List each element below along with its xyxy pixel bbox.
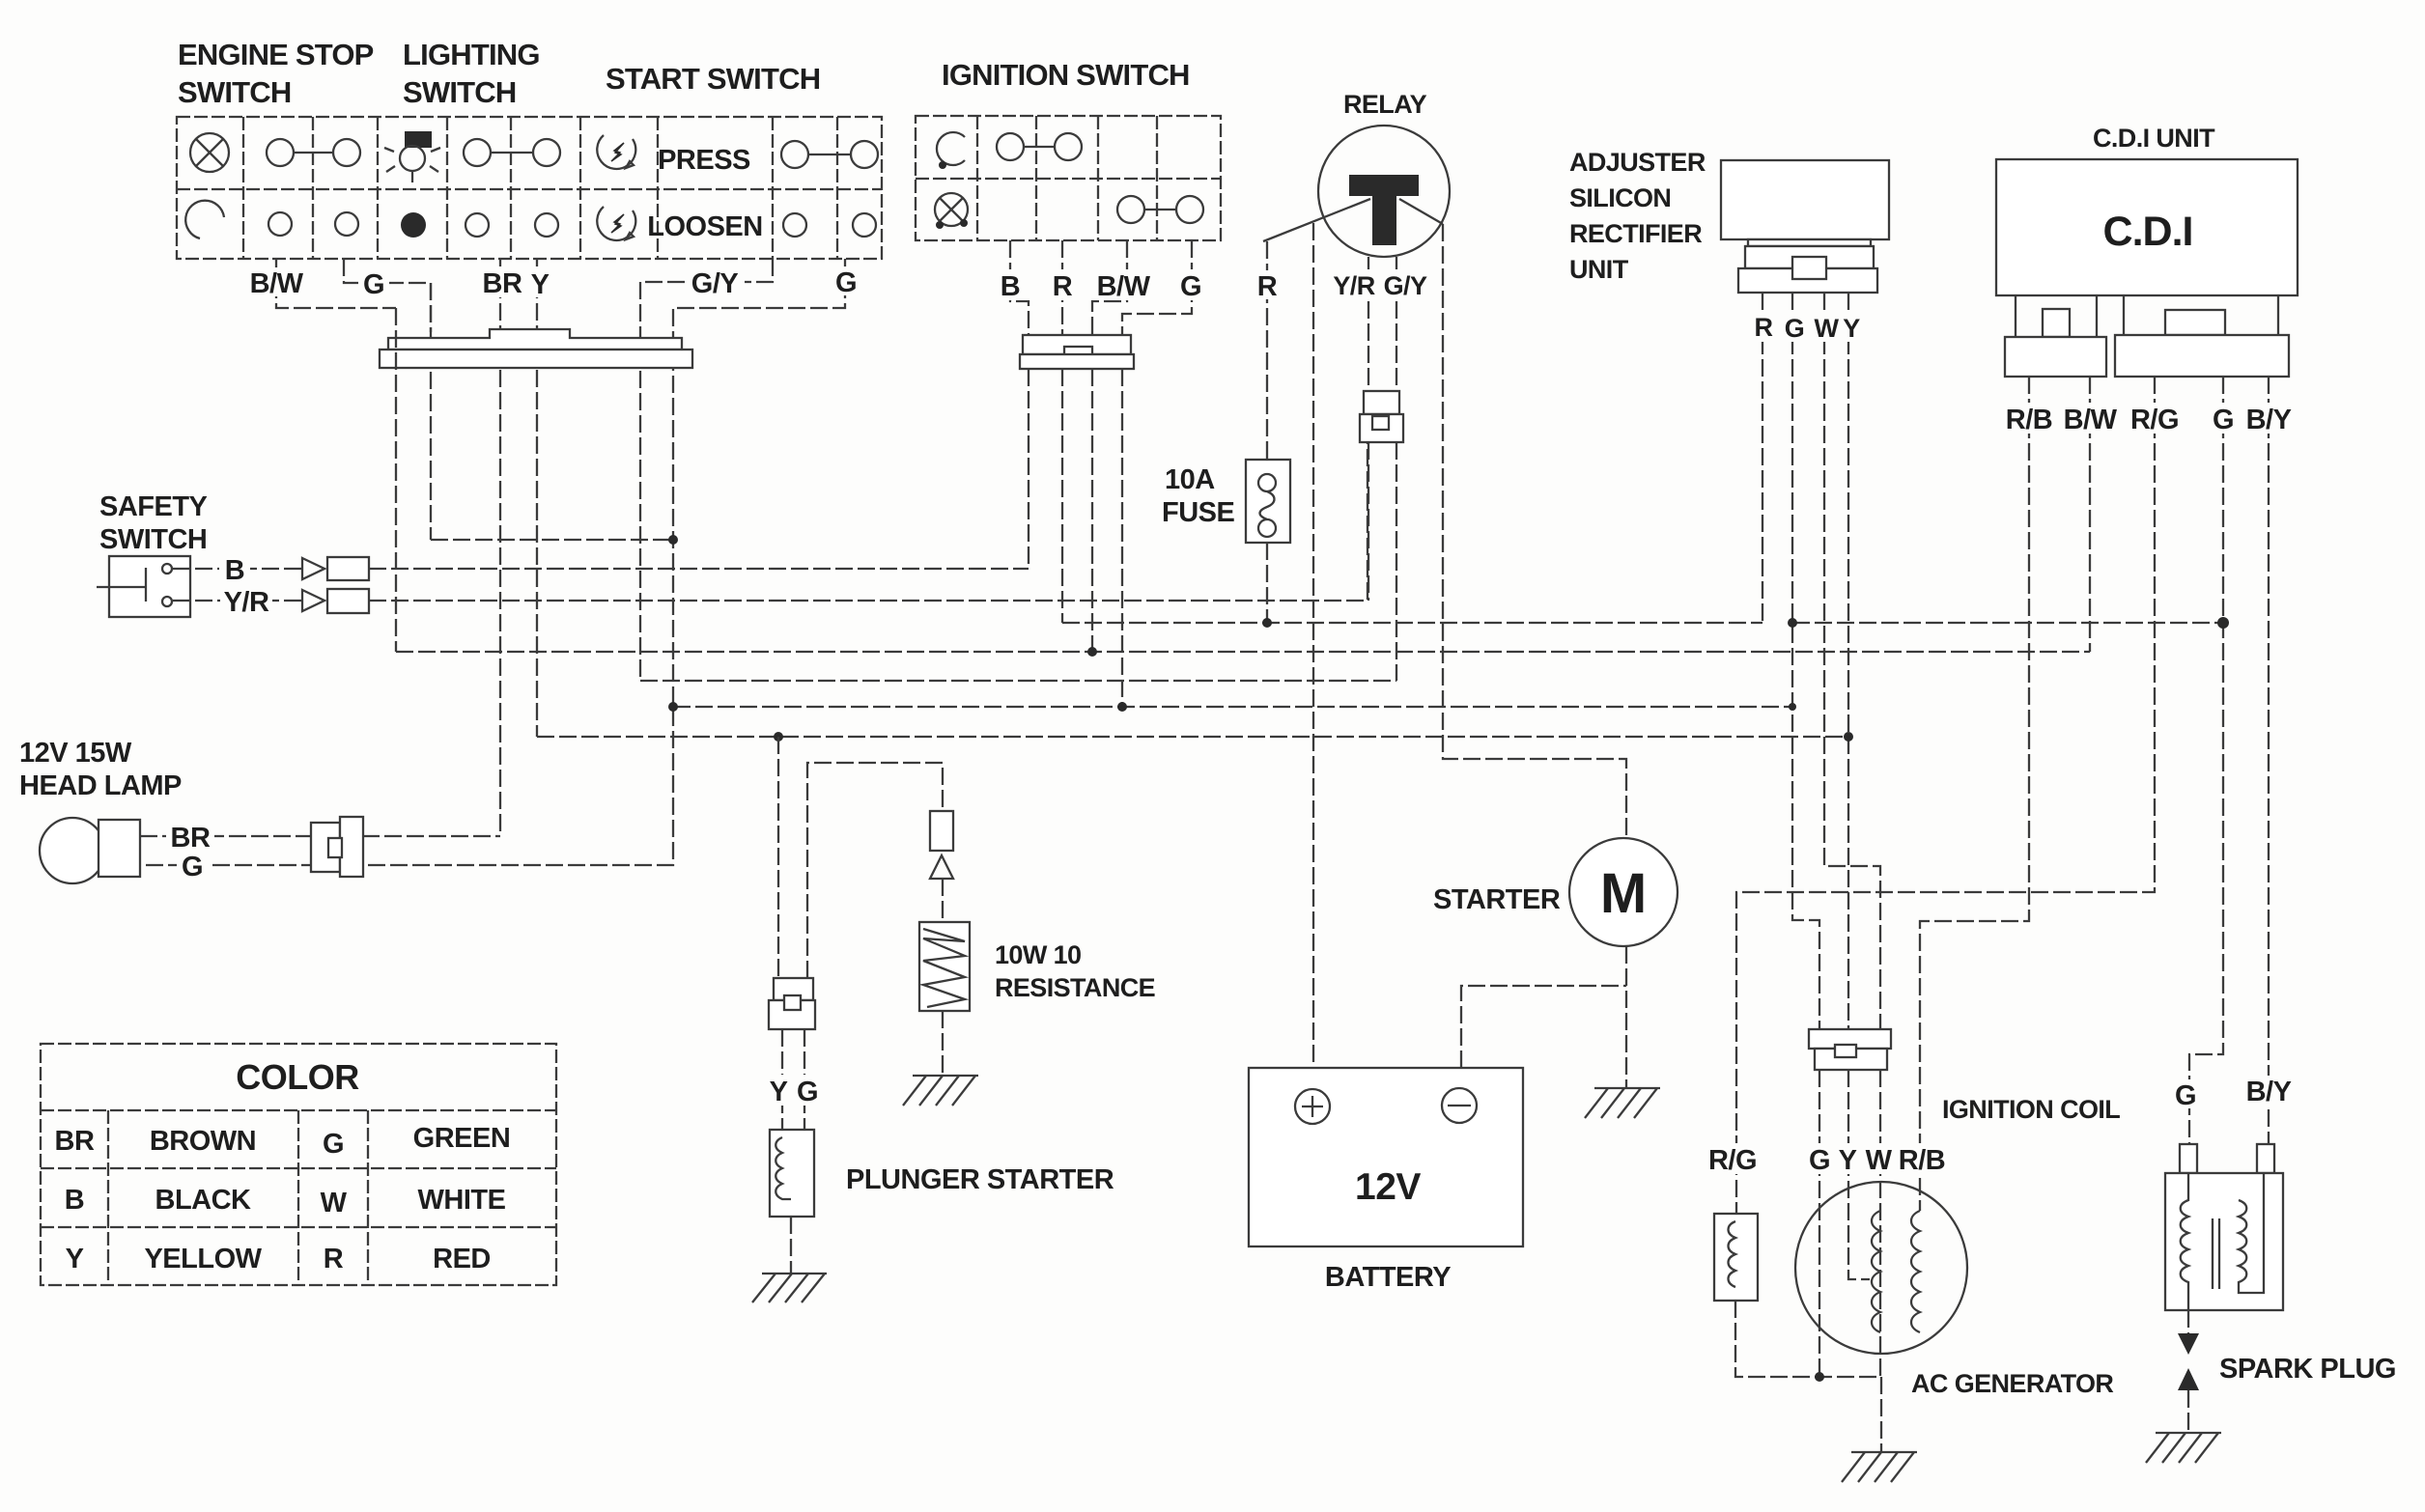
wire G from engine stop switch bbox=[344, 259, 431, 540]
svg-text:ADJUSTER: ADJUSTER bbox=[1569, 148, 1706, 177]
svg-text:BLACK: BLACK bbox=[155, 1185, 252, 1216]
svg-text:RELAY: RELAY bbox=[1343, 90, 1427, 119]
handlebar switch table grid bbox=[177, 117, 882, 259]
svg-text:G: G bbox=[1785, 314, 1804, 343]
svg-text:PLUNGER STARTER: PLUNGER STARTER bbox=[846, 1164, 1114, 1195]
inline connector Y/R bbox=[327, 589, 369, 613]
labels B R B/W G bbox=[991, 269, 1203, 302]
svg-text:R/G: R/G bbox=[2130, 405, 2179, 435]
svg-text:10W 10: 10W 10 bbox=[995, 940, 1081, 969]
wire Y from rectifier bbox=[1847, 293, 1849, 1029]
node G bus left bbox=[668, 702, 678, 712]
svg-text:G: G bbox=[797, 1077, 818, 1107]
svg-text:BR: BR bbox=[483, 268, 522, 299]
wire relay to starter motor bbox=[1443, 224, 1626, 838]
ignition coil primary winding bbox=[2181, 1173, 2188, 1310]
lighting switch off symbol (filled dot) bbox=[401, 212, 426, 238]
node rectifier Y junction bbox=[1844, 732, 1853, 742]
label B/Y (ignition coil) bbox=[2242, 1076, 2295, 1107]
svg-text:Y: Y bbox=[1843, 314, 1860, 343]
svg-text:B: B bbox=[225, 555, 244, 586]
svg-text:SILICON: SILICON bbox=[1569, 183, 1671, 212]
CDI right connector bbox=[2115, 295, 2289, 377]
svg-text:COLOR: COLOR bbox=[236, 1057, 359, 1097]
wire B/W from CDI bbox=[2089, 377, 2091, 652]
svg-text:RECTIFIER: RECTIFIER bbox=[1569, 219, 1702, 248]
wire B/Y from CDI bbox=[2268, 377, 2270, 1144]
wire W from rectifier bbox=[1824, 293, 1880, 1029]
lighting switch lamp symbol bbox=[384, 131, 440, 182]
wire G from CDI bbox=[2189, 377, 2223, 1144]
wire G to plunger bbox=[804, 1029, 805, 1130]
wire R below connector bbox=[1061, 369, 1063, 623]
svg-text:UNIT: UNIT bbox=[1569, 255, 1629, 284]
node G generator junction bbox=[1815, 1372, 1824, 1382]
ignition contacts row1 (closed) bbox=[997, 133, 1082, 160]
svg-text:W: W bbox=[1866, 1145, 1893, 1176]
label ADJUSTER SILICON RECTIFIER UNIT bbox=[1569, 148, 1706, 284]
svg-text:Y: Y bbox=[770, 1077, 788, 1107]
svg-text:IGNITION SWITCH: IGNITION SWITCH bbox=[942, 58, 1190, 92]
svg-text:SWITCH: SWITCH bbox=[99, 524, 207, 555]
node plunger tap bbox=[774, 732, 783, 742]
wire Y/R bus to relay bbox=[369, 442, 1368, 601]
label G (start switch) bbox=[831, 266, 861, 298]
relay connector bbox=[1360, 391, 1403, 442]
wire coil to spark plug bbox=[2187, 1310, 2189, 1334]
wire B from ignition switch bbox=[1010, 240, 1029, 335]
wire Y/R from safety switch bbox=[173, 600, 302, 602]
plunger starter body bbox=[770, 1130, 814, 1217]
wire B/W below connector bbox=[1091, 369, 1093, 652]
label G/Y bbox=[687, 267, 745, 299]
svg-text:G: G bbox=[182, 852, 203, 882]
resistor fuse holder bbox=[930, 811, 953, 851]
svg-text:START SWITCH: START SWITCH bbox=[606, 62, 820, 96]
labels Y G (plunger) bbox=[763, 1075, 821, 1107]
svg-text:12V 15W: 12V 15W bbox=[19, 738, 132, 769]
wire G/Y from relay bbox=[1396, 257, 1397, 391]
fuse 10A bbox=[1246, 460, 1290, 543]
wire B/W stub from engine stop switch bbox=[276, 259, 396, 308]
legend row B BLACK W WHITE bbox=[65, 1185, 506, 1218]
svg-text:C.D.I: C.D.I bbox=[2103, 209, 2193, 255]
ignition switch table grid bbox=[916, 116, 1221, 240]
svg-text:HEAD LAMP: HEAD LAMP bbox=[19, 770, 182, 801]
labels R/G G Y W R/B bbox=[1707, 1143, 1955, 1176]
wire generator W to ground bbox=[1880, 1377, 1882, 1452]
svg-text:ENGINE STOP: ENGINE STOP bbox=[178, 38, 374, 71]
svg-text:G: G bbox=[1809, 1145, 1830, 1176]
generator W winding bbox=[1872, 1211, 1880, 1332]
label R (relay) bbox=[1252, 270, 1283, 302]
wire fuse to R bus bbox=[1266, 543, 1268, 623]
battery minus terminal bbox=[1442, 1088, 1477, 1123]
wire plunger starter G lead to resistor bbox=[807, 763, 943, 978]
svg-text:BATTERY: BATTERY bbox=[1325, 1262, 1451, 1293]
wire plunger to ground bbox=[790, 1217, 792, 1273]
ground (resistance) bbox=[903, 1076, 978, 1106]
generator harness connector bbox=[1809, 1029, 1891, 1070]
svg-text:YELLOW: YELLOW bbox=[144, 1244, 262, 1274]
starter motor M bbox=[1569, 838, 1678, 946]
svg-text:SAFETY: SAFETY bbox=[99, 491, 208, 522]
svg-text:G: G bbox=[1180, 271, 1201, 302]
svg-text:IGNITION COIL: IGNITION COIL bbox=[1942, 1095, 2120, 1124]
svg-text:RESISTANCE: RESISTANCE bbox=[995, 973, 1155, 1002]
label G (ignition coil) bbox=[2170, 1079, 2201, 1111]
wire G/Y bus (start switch to relay) bbox=[640, 680, 1396, 682]
label B (safety) bbox=[219, 554, 250, 586]
svg-text:B/W: B/W bbox=[2064, 405, 2118, 435]
lighting contact circles row2 (open) bbox=[465, 213, 558, 237]
svg-text:AC GENERATOR: AC GENERATOR bbox=[1911, 1369, 2113, 1398]
wire spark plug to ground bbox=[2187, 1390, 2189, 1432]
generator R/B winding bbox=[1911, 1211, 1920, 1332]
CDI left connector bbox=[2005, 295, 2106, 377]
svg-text:G: G bbox=[363, 269, 384, 300]
wire Y to plunger bbox=[781, 1029, 783, 1130]
wire G from ignition switch bbox=[1122, 240, 1192, 335]
wire G-G link bus bbox=[431, 539, 673, 541]
svg-text:SWITCH: SWITCH bbox=[178, 75, 291, 109]
ignition coil pins bbox=[2180, 1144, 2274, 1173]
ignition coil box bbox=[2165, 1173, 2283, 1310]
svg-text:B: B bbox=[65, 1185, 84, 1216]
node fuse to R bus bbox=[1262, 618, 1272, 628]
color legend table bbox=[41, 1044, 556, 1285]
svg-text:B: B bbox=[1001, 271, 1020, 302]
node CDI G junction bbox=[2217, 617, 2229, 629]
wire B from safety switch bbox=[173, 568, 302, 570]
wire B bus to ignition switch bbox=[369, 568, 1029, 570]
wire battery minus to starter ground bbox=[1461, 986, 1626, 1068]
svg-text:M: M bbox=[1600, 862, 1647, 925]
svg-text:SPARK PLUG: SPARK PLUG bbox=[2219, 1354, 2396, 1385]
svg-text:GREEN: GREEN bbox=[413, 1123, 511, 1154]
safety switch terminals bbox=[162, 564, 172, 606]
start switch loosen symbol (lightning in circle) bbox=[597, 207, 635, 240]
svg-text:RED: RED bbox=[433, 1244, 491, 1274]
CDI unit box bbox=[1996, 159, 2298, 295]
wire R from ignition switch bbox=[1061, 240, 1063, 335]
wire starter motor to ground bbox=[1625, 946, 1627, 1087]
wire B/W from ignition switch bbox=[1092, 240, 1127, 335]
relay left diagonal lead bbox=[1263, 199, 1370, 241]
wire G bus (rectifier G to CDI G) bbox=[1792, 622, 2223, 624]
rectifier connector bbox=[1738, 239, 1877, 293]
label ENGINE STOP SWITCH bbox=[178, 38, 374, 109]
ignition coil secondary winding bbox=[2239, 1173, 2264, 1293]
AC generator circle bbox=[1795, 1182, 1967, 1354]
head lamp socket bbox=[99, 820, 140, 877]
wire Y/R from relay bbox=[1368, 257, 1369, 391]
label BR (head lamp) bbox=[166, 822, 214, 854]
ground (starter) bbox=[1585, 1088, 1660, 1118]
start switch contact circles row1 (closed) bbox=[781, 141, 878, 168]
labels Y/R G/Y bbox=[1331, 269, 1427, 300]
inline connector arrow B bbox=[302, 558, 324, 579]
label BR Y bbox=[477, 266, 552, 300]
svg-text:R: R bbox=[1257, 271, 1278, 302]
ignition on symbol (arc with dot) bbox=[937, 132, 965, 169]
svg-text:G: G bbox=[2213, 405, 2234, 435]
inline connector arrow Y/R bbox=[302, 590, 324, 611]
head lamp connector bbox=[311, 817, 363, 877]
wire R from rectifier bbox=[1762, 293, 1763, 623]
labels R G W Y bbox=[1746, 311, 1864, 343]
relay circle bbox=[1318, 126, 1450, 257]
ignition coil core bbox=[2213, 1218, 2219, 1289]
legend row Y YELLOW R RED bbox=[66, 1244, 491, 1274]
wire B/W through connector down bbox=[395, 308, 397, 652]
svg-text:R/G: R/G bbox=[1708, 1145, 1757, 1176]
svg-text:Y/R: Y/R bbox=[224, 587, 269, 618]
start switch press symbol (lightning in circle) bbox=[597, 135, 635, 169]
svg-text:SWITCH: SWITCH bbox=[403, 75, 516, 109]
node rectifier G tap bbox=[1788, 618, 1797, 628]
engine stop off symbol (circle with X) bbox=[190, 133, 229, 172]
labels R/B B/W R/G G B/Y bbox=[1999, 403, 2298, 435]
node G junction bbox=[668, 535, 678, 545]
label B/W bbox=[248, 267, 306, 299]
wire G from start switch bbox=[140, 259, 845, 865]
svg-text:B/Y: B/Y bbox=[2246, 1077, 2292, 1107]
svg-text:STARTER: STARTER bbox=[1433, 884, 1561, 915]
ground (AC generator) bbox=[1842, 1452, 1917, 1482]
safety switch box bbox=[109, 556, 190, 617]
wire G from rectifier bbox=[1792, 293, 1819, 1029]
rectifier unit box bbox=[1721, 160, 1889, 239]
engine stop contact circles row1 (closed) bbox=[267, 139, 360, 166]
ignition off symbol (circle with X and dots) bbox=[935, 193, 968, 229]
plunger starter connector bbox=[769, 978, 815, 1029]
svg-text:12V: 12V bbox=[1355, 1166, 1421, 1208]
inline connector B bbox=[327, 557, 369, 580]
label 12V 15W HEAD LAMP bbox=[19, 738, 182, 801]
node ignition G junction bbox=[1117, 702, 1127, 712]
svg-text:G/Y: G/Y bbox=[1384, 271, 1427, 300]
svg-text:R: R bbox=[324, 1244, 344, 1274]
svg-text:R: R bbox=[1053, 271, 1073, 302]
wire G bus (start switch to rectifier G) bbox=[673, 706, 1792, 708]
label G (engine stop) bbox=[358, 268, 389, 300]
svg-text:R/B: R/B bbox=[2006, 405, 2052, 435]
svg-text:G: G bbox=[835, 267, 857, 298]
wire G/Y below connector bbox=[1396, 442, 1397, 681]
svg-text:BR: BR bbox=[55, 1126, 95, 1157]
svg-text:B/Y: B/Y bbox=[2246, 405, 2292, 435]
wire B/W bus (engine stop to CDI B/W) bbox=[396, 651, 2090, 653]
diode symbol bbox=[930, 855, 953, 879]
engine stop contact circles row2 (open) bbox=[268, 212, 358, 236]
label 10W 10 RESISTANCE bbox=[995, 940, 1155, 1002]
wire G below connector bbox=[1121, 369, 1123, 707]
wire relay to battery plus bbox=[1312, 223, 1314, 1068]
wire plunger starter Y lead bbox=[777, 737, 779, 978]
wire R/B from CDI bbox=[1920, 377, 2029, 1211]
lighting contact circles row1 (closed) bbox=[464, 139, 560, 166]
wire G to generator bbox=[1819, 1070, 1820, 1377]
ground (plunger starter) bbox=[752, 1274, 827, 1302]
wire R/G from CDI bbox=[1736, 377, 2155, 1214]
label G (head lamp) bbox=[177, 851, 208, 882]
wire Y bus (lighting Y to rectifier Y) bbox=[537, 736, 1848, 738]
relay T symbol bbox=[1349, 175, 1419, 245]
svg-text:Y/R: Y/R bbox=[1333, 271, 1374, 300]
node ignition B/W junction bbox=[1087, 647, 1097, 657]
relay right diagonal lead bbox=[1399, 199, 1443, 224]
svg-text:FUSE: FUSE bbox=[1162, 497, 1235, 528]
svg-text:W: W bbox=[1815, 314, 1840, 343]
node rectifier G bottom tap bbox=[1789, 703, 1796, 711]
svg-text:G: G bbox=[323, 1129, 344, 1160]
start switch contact circles row2 (open) bbox=[783, 213, 876, 237]
wire BR from head lamp bbox=[140, 835, 500, 837]
label Y/R (safety) bbox=[220, 586, 272, 618]
wire R bus (ignition R to rectifier R) bbox=[1062, 622, 1762, 624]
label LIGHTING SWITCH bbox=[403, 38, 540, 109]
wire G through connector down bbox=[430, 283, 432, 332]
svg-text:PRESS: PRESS bbox=[658, 145, 750, 176]
svg-text:Y: Y bbox=[1839, 1145, 1857, 1176]
wire W to generator bbox=[1879, 1070, 1881, 1377]
wire R from relay to fuse bbox=[1266, 241, 1268, 460]
engine stop run symbol (open arc) bbox=[185, 201, 224, 238]
resistor on R/G lead bbox=[1714, 1214, 1758, 1301]
wire B below connector bbox=[1028, 369, 1029, 569]
svg-text:G/Y: G/Y bbox=[691, 268, 739, 299]
svg-text:LOOSEN: LOOSEN bbox=[647, 211, 762, 242]
svg-text:BROWN: BROWN bbox=[150, 1126, 256, 1157]
svg-text:BR: BR bbox=[171, 823, 211, 854]
wire diode to resistor bbox=[942, 879, 944, 922]
ignition contacts row2 (closed) bbox=[1117, 196, 1203, 223]
legend row BR BROWN G GREEN bbox=[55, 1123, 511, 1160]
handlebar harness connector bbox=[380, 329, 692, 368]
svg-text:WHITE: WHITE bbox=[418, 1185, 506, 1216]
svg-text:R/B: R/B bbox=[1899, 1145, 1945, 1176]
wire R/G lead to generator common bbox=[1735, 1301, 1881, 1377]
wire BR from lighting switch bbox=[499, 259, 501, 836]
svg-text:B/W: B/W bbox=[1097, 271, 1151, 302]
svg-text:Y: Y bbox=[531, 269, 550, 300]
wire resistor to ground bbox=[942, 1011, 944, 1076]
svg-text:W: W bbox=[321, 1188, 348, 1218]
label 10A FUSE bbox=[1162, 464, 1235, 528]
resistor 10W box with winding bbox=[919, 922, 970, 1011]
head lamp bulb bbox=[40, 818, 105, 883]
label SAFETY SWITCH bbox=[99, 491, 208, 555]
wire Y to generator bbox=[1848, 1070, 1870, 1279]
spark plug gap arrows bbox=[2178, 1333, 2199, 1390]
battery box bbox=[1249, 1068, 1523, 1246]
svg-text:LIGHTING: LIGHTING bbox=[403, 38, 540, 71]
wire Y from lighting switch bbox=[536, 259, 538, 737]
svg-text:G: G bbox=[2175, 1080, 2196, 1111]
svg-text:10A: 10A bbox=[1165, 464, 1215, 495]
safety switch lever bbox=[97, 568, 146, 602]
svg-text:C.D.I UNIT: C.D.I UNIT bbox=[2093, 124, 2215, 153]
svg-text:Y: Y bbox=[66, 1244, 84, 1274]
wire Y/R below connector bbox=[1368, 442, 1369, 601]
ignition harness connector bbox=[1020, 335, 1134, 369]
wire G/Y from start switch bbox=[640, 259, 773, 681]
svg-text:R: R bbox=[1755, 313, 1773, 342]
ground (spark plug) bbox=[2146, 1433, 2221, 1463]
battery plus terminal bbox=[1295, 1089, 1330, 1124]
svg-text:B/W: B/W bbox=[250, 268, 304, 299]
